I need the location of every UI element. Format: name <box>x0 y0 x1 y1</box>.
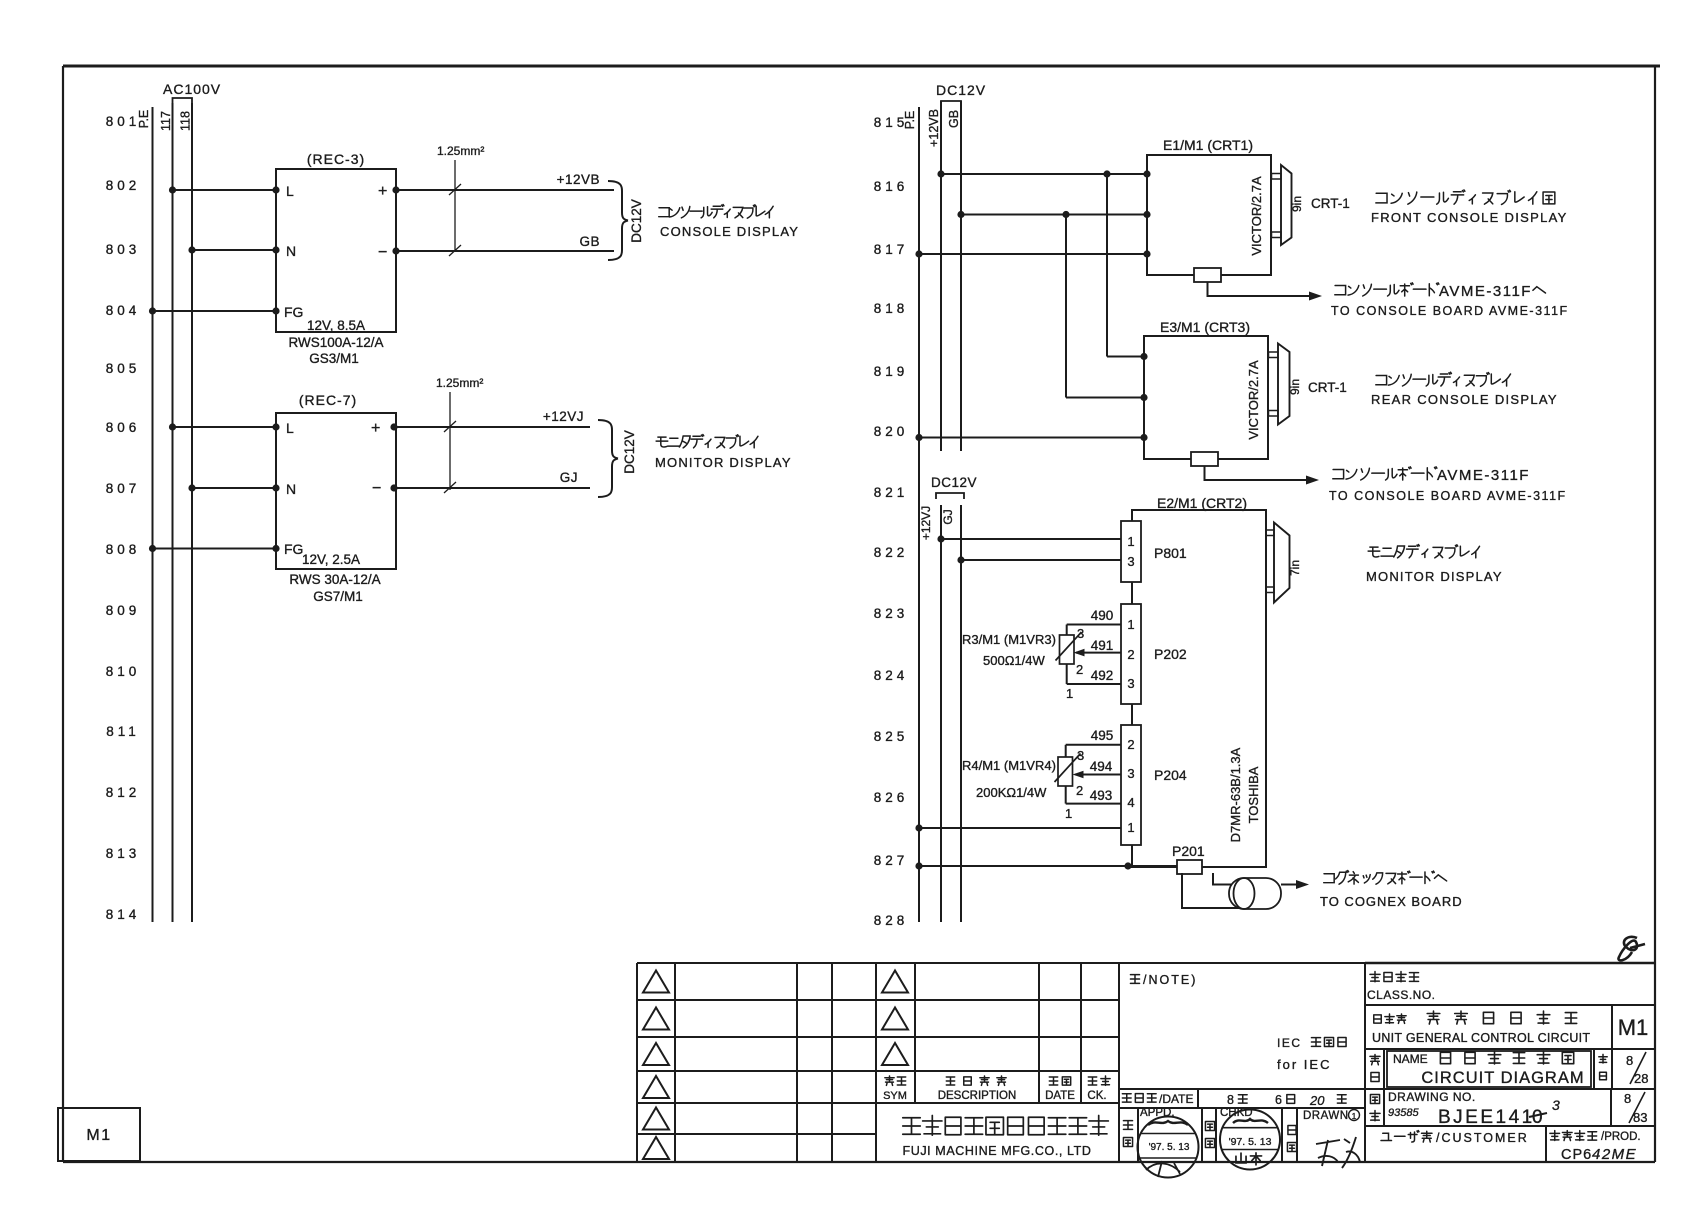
svg-text:BJEE141: BJEE141 <box>1438 1107 1535 1128</box>
svg-text:L: L <box>286 420 294 436</box>
svg-text:E1/M1 (CRT1): E1/M1 (CRT1) <box>1163 137 1253 153</box>
svg-text:VICTOR/2.7A: VICTOR/2.7A <box>1249 176 1264 256</box>
svg-text:(REC-7): (REC-7) <box>299 392 357 408</box>
svg-text:GB: GB <box>947 110 961 128</box>
svg-text:TO COGNEX BOARD: TO COGNEX BOARD <box>1320 894 1463 909</box>
svg-text:+12VJ: +12VJ <box>919 506 933 540</box>
svg-text:493: 493 <box>1090 788 1113 803</box>
svg-text:CONSOLE DISPLAY: CONSOLE DISPLAY <box>660 224 799 239</box>
svg-text:2: 2 <box>1076 783 1083 798</box>
svg-text:9in: 9in <box>1288 379 1302 395</box>
svg-text:8: 8 <box>1624 1091 1631 1106</box>
svg-text:28: 28 <box>1634 1071 1648 1086</box>
svg-text:MONITOR DISPLAY: MONITOR DISPLAY <box>1366 569 1503 584</box>
svg-text:+: + <box>378 183 387 200</box>
svg-text:1: 1 <box>1127 534 1134 549</box>
svg-text:AVME-311F: AVME-311F <box>1439 283 1532 300</box>
svg-text:/CUSTOMER: /CUSTOMER <box>1436 1131 1529 1145</box>
svg-text:816: 816 <box>874 179 909 194</box>
svg-text:2: 2 <box>1127 647 1134 662</box>
svg-text:CIRCUIT DIAGRAM: CIRCUIT DIAGRAM <box>1421 1069 1584 1087</box>
svg-text:CP6: CP6 <box>1561 1147 1592 1163</box>
svg-text:4: 4 <box>1127 795 1134 810</box>
svg-text:826: 826 <box>874 790 909 805</box>
svg-text:813: 813 <box>106 846 141 861</box>
svg-text:821: 821 <box>874 485 909 500</box>
svg-text:6: 6 <box>1275 1093 1282 1107</box>
svg-text:3: 3 <box>1127 766 1134 781</box>
svg-text:3: 3 <box>1127 554 1134 569</box>
svg-text:817: 817 <box>874 242 909 257</box>
svg-text:815: 815 <box>874 115 909 130</box>
svg-text:3: 3 <box>1127 676 1134 691</box>
svg-text:P201: P201 <box>1172 843 1205 859</box>
svg-text:P202: P202 <box>1154 646 1187 662</box>
svg-text:93585: 93585 <box>1388 1107 1419 1119</box>
svg-text:TO CONSOLE BOARD AVME-311F: TO CONSOLE BOARD AVME-311F <box>1329 489 1567 503</box>
svg-text:FRONT CONSOLE DISPLAY: FRONT CONSOLE DISPLAY <box>1371 210 1568 225</box>
svg-text:AC100V: AC100V <box>163 81 221 97</box>
svg-text:1.25mm²: 1.25mm² <box>436 376 483 390</box>
svg-text:820: 820 <box>874 424 909 439</box>
svg-text:3: 3 <box>1077 626 1084 641</box>
svg-text:for IEC: for IEC <box>1277 1057 1331 1072</box>
svg-text:MONITOR DISPLAY: MONITOR DISPLAY <box>655 455 792 470</box>
svg-text:0: 0 <box>1532 1107 1543 1128</box>
svg-text:495: 495 <box>1091 728 1114 743</box>
svg-text:824: 824 <box>874 668 909 683</box>
svg-text:12V, 8.5A: 12V, 8.5A <box>307 318 365 333</box>
svg-text:/PROD.: /PROD. <box>1601 1131 1641 1143</box>
svg-text:−: − <box>378 244 387 261</box>
svg-text:805: 805 <box>106 361 141 376</box>
svg-text:118: 118 <box>179 111 193 131</box>
svg-text:E2/M1 (CRT2): E2/M1 (CRT2) <box>1157 495 1247 511</box>
svg-text:DESCRIPTION: DESCRIPTION <box>938 1090 1017 1102</box>
svg-text:1: 1 <box>1127 617 1134 632</box>
svg-text:TOSHIBA: TOSHIBA <box>1246 766 1261 823</box>
svg-text:828: 828 <box>874 913 909 928</box>
svg-text:+12VJ: +12VJ <box>543 409 584 424</box>
svg-text:P801: P801 <box>1154 545 1187 561</box>
svg-text:RWS 30A-12/A: RWS 30A-12/A <box>289 572 380 587</box>
svg-text:490: 490 <box>1091 608 1114 623</box>
svg-text:GJ: GJ <box>941 509 955 524</box>
svg-text:DC12V: DC12V <box>629 199 644 243</box>
svg-text:7in: 7in <box>1288 560 1302 576</box>
svg-text:TO CONSOLE BOARD AVME-311F: TO CONSOLE BOARD AVME-311F <box>1331 304 1569 318</box>
svg-text:N: N <box>286 481 296 497</box>
svg-text:L: L <box>286 183 294 199</box>
svg-text:DRAWN: DRAWN <box>1303 1110 1349 1122</box>
svg-text:807: 807 <box>106 481 141 496</box>
svg-text:12V, 2.5A: 12V, 2.5A <box>302 552 360 567</box>
svg-text:814: 814 <box>106 907 141 922</box>
svg-text:GS7/M1: GS7/M1 <box>313 589 363 604</box>
svg-text:DRAWING NO.: DRAWING NO. <box>1388 1090 1476 1104</box>
svg-text:DC12V: DC12V <box>931 475 977 490</box>
svg-text:GB: GB <box>579 234 600 249</box>
svg-text:R4/M1 (M1VR4): R4/M1 (M1VR4) <box>962 758 1056 773</box>
svg-text:8: 8 <box>1626 1053 1633 1068</box>
svg-text:812: 812 <box>106 785 141 800</box>
svg-text:802: 802 <box>106 178 141 193</box>
svg-text:+12VB: +12VB <box>927 109 941 147</box>
svg-text:+: + <box>371 420 380 437</box>
svg-text:/NOTE): /NOTE) <box>1143 973 1197 987</box>
svg-text:1.25mm²: 1.25mm² <box>437 144 484 158</box>
svg-text:DATE: DATE <box>1045 1090 1075 1102</box>
svg-text:UNIT GENERAL CONTROL CIRCUIT: UNIT GENERAL CONTROL CIRCUIT <box>1372 1031 1590 1045</box>
svg-text:819: 819 <box>874 364 909 379</box>
svg-text:811: 811 <box>106 724 140 739</box>
svg-text:2: 2 <box>1127 737 1134 752</box>
svg-text:808: 808 <box>106 542 141 557</box>
svg-text:FG: FG <box>284 541 303 557</box>
svg-text:R3/M1 (M1VR3): R3/M1 (M1VR3) <box>962 632 1056 647</box>
svg-text:822: 822 <box>874 545 909 560</box>
svg-text:FG: FG <box>284 304 303 320</box>
svg-text:117: 117 <box>159 111 173 131</box>
svg-text:8: 8 <box>1227 1093 1234 1107</box>
svg-text:'97. 5. 13: '97. 5. 13 <box>1149 1142 1190 1153</box>
svg-text:818: 818 <box>874 301 909 316</box>
svg-text:DC12V: DC12V <box>936 82 986 98</box>
svg-text:REAR CONSOLE DISPLAY: REAR CONSOLE DISPLAY <box>1371 392 1558 407</box>
svg-text:801: 801 <box>106 114 141 129</box>
svg-text:AVME-311F: AVME-311F <box>1437 467 1530 484</box>
svg-text:1: 1 <box>1127 820 1134 835</box>
svg-text:P204: P204 <box>1154 767 1187 783</box>
svg-text:3: 3 <box>1077 748 1084 763</box>
svg-text:803: 803 <box>106 242 141 257</box>
svg-text:CK.: CK. <box>1087 1090 1106 1102</box>
svg-text:42ME: 42ME <box>1592 1146 1637 1163</box>
svg-text:83: 83 <box>1633 1110 1647 1125</box>
svg-text:3: 3 <box>1552 1097 1560 1113</box>
svg-text:E3/M1 (CRT3): E3/M1 (CRT3) <box>1160 319 1250 335</box>
svg-text:CLASS.NO.: CLASS.NO. <box>1367 988 1436 1002</box>
svg-text:827: 827 <box>874 853 909 868</box>
svg-text:1: 1 <box>1066 686 1073 701</box>
svg-text:804: 804 <box>106 303 141 318</box>
svg-text:1: 1 <box>1065 806 1072 821</box>
svg-text:CRT-1: CRT-1 <box>1308 380 1347 395</box>
svg-text:−: − <box>372 480 381 497</box>
svg-text:500Ω1/4W: 500Ω1/4W <box>983 653 1045 668</box>
svg-text:/DATE: /DATE <box>1159 1092 1193 1106</box>
svg-text:20: 20 <box>1309 1093 1325 1108</box>
svg-text:809: 809 <box>106 603 141 618</box>
svg-text:2: 2 <box>1076 662 1083 677</box>
svg-text:491: 491 <box>1091 638 1114 653</box>
svg-text:GJ: GJ <box>560 470 578 485</box>
svg-text:GS3/M1: GS3/M1 <box>309 351 359 366</box>
svg-text:IEC: IEC <box>1277 1036 1302 1050</box>
svg-text:M1: M1 <box>1618 1015 1649 1040</box>
svg-text:806: 806 <box>106 420 141 435</box>
svg-text:NAME: NAME <box>1393 1052 1428 1066</box>
svg-text:DC12V: DC12V <box>622 430 637 474</box>
svg-text:1: 1 <box>1352 1111 1357 1121</box>
svg-text:200KΩ1/4W: 200KΩ1/4W <box>976 785 1047 800</box>
svg-text:9in: 9in <box>1290 196 1304 212</box>
svg-text:823: 823 <box>874 606 909 621</box>
svg-text:SYM: SYM <box>883 1090 907 1102</box>
svg-text:D7MR-63B/1.3A: D7MR-63B/1.3A <box>1228 747 1243 842</box>
svg-text:FUJI MACHINE MFG.CO., LTD: FUJI MACHINE MFG.CO., LTD <box>902 1144 1091 1158</box>
svg-text:RWS100A-12/A: RWS100A-12/A <box>288 335 383 350</box>
svg-text:VICTOR/2.7A: VICTOR/2.7A <box>1246 360 1261 440</box>
svg-text:825: 825 <box>874 729 909 744</box>
svg-text:N: N <box>286 243 296 259</box>
svg-text:+12VB: +12VB <box>557 172 600 187</box>
svg-text:'97. 5. 13: '97. 5. 13 <box>1229 1136 1272 1148</box>
svg-text:494: 494 <box>1090 759 1113 774</box>
svg-text:M1: M1 <box>86 1127 111 1144</box>
svg-text:CRT-1: CRT-1 <box>1311 196 1350 211</box>
svg-text:(REC-3): (REC-3) <box>307 151 365 167</box>
svg-text:810: 810 <box>106 664 141 679</box>
svg-text:492: 492 <box>1091 668 1114 683</box>
